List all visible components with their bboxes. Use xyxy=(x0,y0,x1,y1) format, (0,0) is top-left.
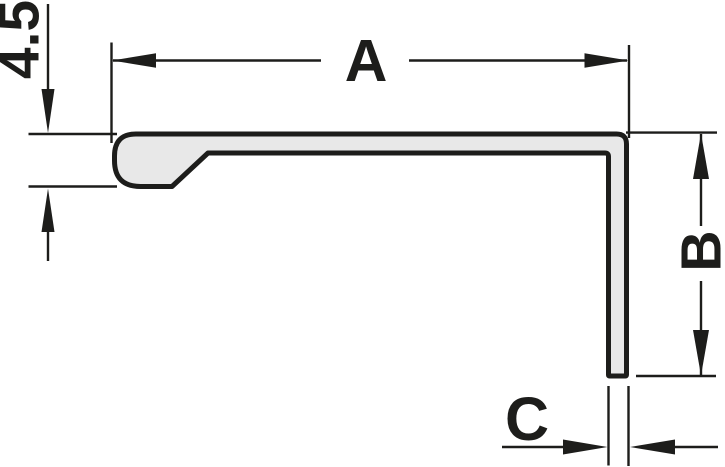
svg-text:A: A xyxy=(345,28,388,94)
svg-text:B: B xyxy=(669,230,725,271)
svg-text:C: C xyxy=(505,385,549,453)
svg-text:4.5: 4.5 xyxy=(0,0,52,79)
